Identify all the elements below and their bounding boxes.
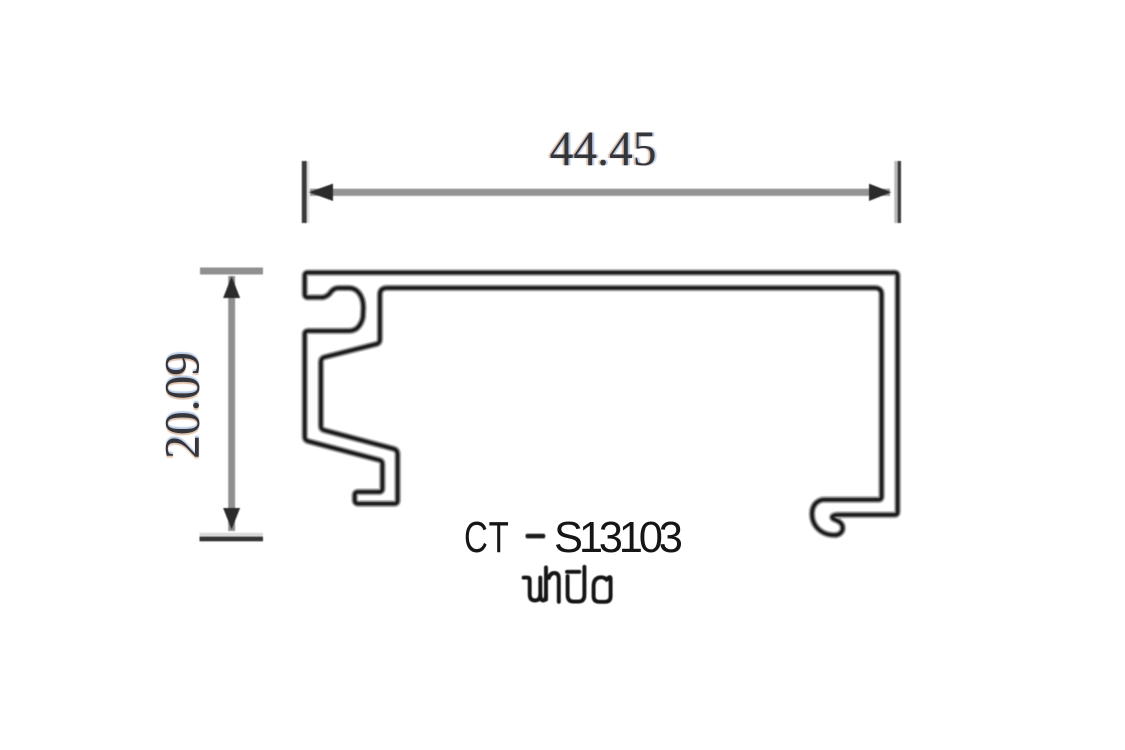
sara aa — [549, 573, 559, 602]
profile outline dark stroke — [305, 273, 898, 535]
do dek — [594, 577, 611, 602]
sara i bar — [567, 570, 579, 574]
arrowhead left — [309, 184, 333, 201]
dimension text 20.09 (rotated) — [164, 357, 198, 459]
label text CT — [464, 522, 510, 555]
dimension text 44.45 — [549, 131, 651, 165]
arrowhead down — [223, 508, 240, 530]
dimension line 44.45 — [310, 189, 890, 196]
dimension line 20.09 — [228, 276, 235, 531]
extension tick bottom (left dim) — [200, 533, 264, 537]
arrowhead up — [223, 276, 240, 298]
fo fa left serif+stem+U+stem2 — [524, 578, 541, 601]
profile outline halo — [305, 273, 898, 535]
extension line right (top dim) — [894, 161, 897, 223]
thai word fa-pit — [524, 567, 611, 602]
label text S13103 — [554, 522, 679, 555]
arrowhead right — [869, 184, 891, 201]
po pla — [568, 567, 585, 602]
extension line left (top dim) — [302, 161, 307, 223]
fo fa narrow U2 — [540, 594, 546, 600]
fo fa tall right stem — [544, 567, 548, 599]
label dash in CT - S13103 — [526, 534, 546, 539]
extension tick top (left dim) — [200, 268, 263, 275]
